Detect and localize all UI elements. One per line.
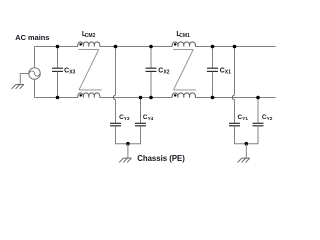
wire C_Y3 branch from top rail: [115, 47, 117, 96]
core bar LCM1 bottom: [174, 89, 197, 91]
node dot top rail at CX1: [211, 45, 215, 49]
capacitor CY4: [135, 123, 146, 126]
wire CY1 to PE node: [235, 126, 247, 144]
wire C_Y3 below rail: [115, 100, 117, 124]
core bar LCM2 top: [79, 48, 99, 50]
ground chassis symbol left: [119, 158, 131, 162]
node dot top rail at CY1: [233, 45, 237, 49]
wire bottom rail (neutral N): [35, 97, 276, 99]
core bar LCM1 top: [173, 48, 193, 50]
node dot bottom rail at CX1: [211, 96, 215, 100]
wire source to bottom rail: [34, 79, 36, 97]
inductor LCM2 bottom winding: [78, 93, 100, 98]
ground chassis symbol right: [238, 158, 250, 162]
hop of C_Y3 wire over bottom rail: [113, 95, 115, 99]
phase dot LCM2 bottom: [79, 94, 82, 97]
ground earth symbol at AC source: [12, 85, 24, 89]
node dot bottom rail at CY4: [139, 96, 143, 100]
phase dot LCM1 bottom: [174, 94, 177, 97]
node dot top rail at CY3: [114, 45, 118, 49]
inductor LCM1 top winding: [172, 42, 195, 47]
wire C_Y1 branch from top rail: [234, 47, 236, 96]
AC source V1 circle: [29, 68, 41, 80]
inductor LCM1 bottom winding: [172, 93, 195, 98]
svg-text:Y2: Y2: [267, 116, 273, 121]
svg-text:CM2: CM2: [85, 33, 96, 39]
node dot bottom rail at CX3: [56, 96, 60, 100]
node dot bottom rail at CY2: [256, 96, 260, 100]
wire CY4 to PE node: [128, 126, 141, 144]
wire C_Y4 branch from bottom rail: [140, 98, 142, 124]
capacitor CX2: [146, 68, 157, 71]
core bar LCM2 bottom: [79, 89, 102, 91]
node dot PE junction right: [245, 142, 249, 146]
svg-text:Chassis (PE): Chassis (PE): [137, 154, 185, 163]
capacitor CX1: [207, 68, 218, 71]
svg-text:Y4: Y4: [148, 116, 154, 121]
phase dot LCM1 top: [174, 43, 177, 46]
capacitor CY1: [229, 123, 240, 126]
wire C_X1 branch: [212, 47, 214, 98]
wire PE stub right: [245, 144, 247, 158]
capacitor CX3: [52, 68, 63, 71]
capacitor CY2: [253, 123, 264, 126]
phase dot LCM2 top: [79, 43, 82, 46]
svg-text:CM1: CM1: [179, 33, 190, 39]
wire C_Y1 below rail: [234, 100, 236, 124]
node dot top rail at CX3: [56, 45, 60, 49]
wire C_X3 branch top: [57, 47, 59, 69]
inductor LCM2 top winding: [78, 42, 100, 47]
node dot bottom rail at CX2: [149, 96, 153, 100]
svg-text:AC mains: AC mains: [15, 33, 49, 42]
wire source to earth: [20, 74, 28, 85]
svg-text:Y3: Y3: [124, 116, 130, 121]
wire C_X3 branch bottom: [57, 71, 59, 97]
wire C_Y2 branch from bottom rail: [257, 98, 259, 124]
capacitor CY3: [110, 123, 121, 126]
wire source to top rail: [34, 47, 36, 68]
wire CY2 to PE node: [246, 126, 258, 144]
hop of C_Y1 wire over bottom rail: [232, 95, 234, 99]
svg-text:Y1: Y1: [242, 116, 248, 121]
wire PE stub left: [127, 144, 129, 158]
wire top rail (line L): [35, 46, 276, 48]
svg-text:X1: X1: [225, 70, 231, 76]
wire CY3 to PE node: [116, 126, 128, 144]
svg-text:X3: X3: [69, 70, 75, 76]
node dot top rail at CX2: [149, 45, 153, 49]
AC source sine wave: [29, 71, 39, 76]
core diagonal LCM2: [79, 49, 99, 90]
core diagonal LCM1: [174, 49, 194, 90]
node dot PE junction left: [126, 142, 130, 146]
wire C_X2 branch: [150, 47, 152, 98]
svg-text:X2: X2: [163, 70, 169, 76]
